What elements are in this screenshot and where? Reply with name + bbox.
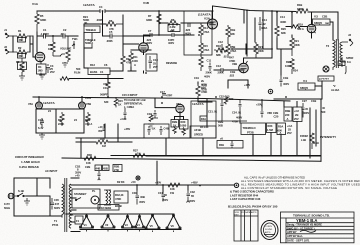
svg-text:C4B: C4B: [164, 127, 169, 131]
resistor R34: [277, 123, 286, 135]
wire rail right + junction: [180, 185, 234, 190]
capacitor C14: [259, 17, 268, 31]
tube V2B envelope: [239, 63, 249, 73]
jack J3: [342, 33, 353, 46]
pot VOLUME: [60, 36, 71, 62]
svg-text:450V: 450V: [162, 198, 168, 202]
resistor R28: [85, 112, 92, 126]
svg-text:C35: C35: [54, 198, 59, 202]
heater drops: [87, 230, 174, 233]
resistor R3: [16, 58, 27, 76]
capacitor C17: [160, 90, 173, 98]
resistor R9: [121, 56, 131, 65]
heater triangle V3: [121, 215, 133, 229]
svg-text:APPD: APPD: [265, 231, 271, 234]
svg-text:630: 630: [104, 100, 109, 104]
capacitor C20: [120, 108, 127, 121]
svg-text:330K: 330K: [146, 18, 152, 22]
resistor R30: [224, 96, 234, 104]
capacitor C21: [208, 100, 224, 122]
wire top right rail 2: [213, 6, 339, 40]
resistor R18b: [226, 25, 236, 42]
svg-text:R21: R21: [294, 39, 299, 43]
tube V5A stage: [176, 102, 204, 106]
capacitor C19b: [85, 165, 102, 180]
resistor R15: [199, 41, 210, 55]
labels right col: [311, 99, 326, 114]
tube V1A internals: [37, 55, 43, 62]
svg-text:SPKR: SPKR: [346, 56, 353, 60]
svg-text:TORNVILLE SOUND LTD.: TORNVILLE SOUND LTD.: [293, 214, 330, 218]
resistor R27c: [148, 115, 154, 128]
svg-text:6.4V: 6.4V: [38, 126, 44, 130]
svg-text:V2: V2: [105, 223, 109, 227]
resistor R5B: [103, 165, 123, 173]
svg-text:R50: R50: [48, 43, 53, 47]
svg-text:450: 450: [98, 129, 103, 133]
svg-text:68K: 68K: [19, 54, 24, 58]
capacitor C2: [56, 28, 79, 39]
svg-text:400V: 400V: [185, 32, 191, 36]
wire reverb stage box: [36, 97, 84, 133]
svg-text:C32: C32: [190, 190, 195, 194]
svg-text:LAST CAPACITOR C33: LAST CAPACITOR C33: [230, 197, 261, 201]
svg-text:C1B: C1B: [283, 76, 288, 80]
svg-text:400V: 400V: [146, 41, 152, 45]
svg-text:REV: REV: [235, 215, 240, 217]
svg-text:400A: 400A: [261, 26, 267, 30]
wire osc top: [198, 80, 248, 102]
wire top rail ch1: [37, 11, 213, 22]
svg-text:.022: .022: [229, 74, 235, 78]
svg-text:220K: 220K: [58, 122, 64, 126]
svg-text:400V: 400V: [201, 83, 207, 87]
svg-text:+4BV: +4BV: [191, 181, 198, 185]
wire C12 run: [232, 44, 272, 54]
resistor R16: [214, 44, 228, 57]
resistor R7: [146, 14, 161, 24]
svg-text:TREMOLO: TREMOLO: [243, 126, 256, 130]
svg-text:BASS: BASS: [90, 70, 98, 74]
node dots rail: [38, 10, 293, 186]
svg-text:600: 600: [321, 110, 326, 114]
heater triangle V4: [134, 215, 144, 229]
svg-text:27B: 27B: [114, 168, 119, 172]
title row app1: [287, 230, 316, 234]
svg-text:450V: 450V: [189, 199, 195, 203]
text circuit breaker note: [15, 155, 44, 169]
top right rail R18: [296, 3, 308, 13]
svg-text:C1: C1: [100, 70, 104, 74]
revision table: [234, 210, 258, 241]
svg-text:C2B: C2B: [322, 15, 327, 19]
svg-text:YBM-1 B.A: YBM-1 B.A: [296, 218, 317, 223]
svg-text:AC INPUT: AC INPUT: [45, 169, 58, 173]
svg-text:DATE - SEPT 1971: DATE - SEPT 1971: [287, 239, 310, 243]
svg-text:YORKV: YORKV: [265, 226, 273, 228]
svg-text:C1B: C1B: [311, 99, 316, 103]
svg-text:L1B: L1B: [301, 138, 306, 142]
svg-text:S.1B: S.1B: [18, 189, 24, 193]
svg-text:470A: 470A: [203, 48, 209, 52]
resistor R24 label: [83, 15, 89, 25]
svg-text:.0006: .0006: [96, 18, 103, 22]
svg-text:R16: R16: [216, 44, 221, 48]
ground reverb box: [39, 133, 45, 139]
svg-text:47PF: 47PF: [166, 94, 173, 98]
svg-text:C5: C5: [109, 30, 113, 34]
jack J2: [4, 45, 13, 54]
resistor R-220K: [58, 112, 64, 126]
svg-text:R33: R33: [268, 124, 273, 128]
pilot lamp PL: [91, 189, 99, 204]
title row design: [287, 223, 322, 227]
resistor R33 box: [267, 123, 277, 133]
pot TREMOLO: [232, 120, 266, 135]
pot TREBLE box: [84, 26, 100, 48]
svg-text:R8: R8: [171, 18, 175, 22]
tube V4A internals: [37, 104, 41, 109]
svg-text:C7: C7: [148, 29, 152, 33]
resistor R1: [13, 29, 33, 42]
capacitor C35: [51, 198, 61, 210]
resistors R42 R43: [114, 191, 128, 208]
svg-text:+50: +50: [131, 180, 136, 184]
svg-text:12AX7A: 12AX7A: [192, 102, 204, 106]
svg-text:TREBLE: TREBLE: [86, 28, 97, 32]
capacitor C13: [214, 64, 244, 72]
svg-text:C19: C19: [194, 76, 199, 80]
svg-text:10K: 10K: [86, 161, 91, 165]
svg-text:R2: R2: [18, 46, 22, 50]
resistor R19: [286, 12, 312, 38]
svg-text:V5: V5: [150, 224, 154, 228]
wire V1B grid: [123, 43, 139, 45]
svg-text:R7: R7: [148, 14, 152, 18]
label A13B: [331, 84, 339, 92]
svg-text:A: A: [134, 63, 136, 67]
svg-text:.1 450V: .1 450V: [40, 32, 49, 36]
heater box label: [98, 205, 119, 211]
svg-text:68K: 68K: [19, 38, 24, 42]
svg-text:C4: C4: [99, 5, 103, 9]
plug 117V: [4, 193, 18, 210]
svg-text:TO CASE OF L1B: TO CASE OF L1B: [124, 98, 146, 102]
svg-text:470A: 470A: [230, 49, 236, 53]
svg-text:DIFFERENTIAL: DIFFERENTIAL: [124, 102, 143, 106]
svg-text:V2B: V2B: [232, 62, 237, 66]
svg-text:C2B: C2B: [85, 165, 90, 169]
svg-text:C14: C14: [280, 15, 285, 19]
svg-text:R42,43: R42,43: [115, 193, 124, 197]
svg-text:C11: C11: [207, 59, 212, 63]
resistor R20b: [275, 12, 287, 49]
svg-text:AL13A: AL13A: [331, 88, 339, 92]
heater triangle V1: [79, 214, 93, 228]
tube V1B internals: [141, 46, 147, 53]
capacitor C8: [168, 29, 175, 45]
svg-text:R36: R36: [87, 153, 92, 157]
capacitor C7: [146, 29, 152, 45]
svg-text:C10: C10: [153, 58, 158, 62]
svg-text:R19: R19: [298, 23, 303, 27]
resistor R6: [106, 19, 123, 31]
resistor R20 470K: [196, 84, 208, 98]
transformer T1: [52, 178, 80, 232]
svg-text:B1,B2,D3,D4,D5, PH304 OR BY 10: B1,B2,D3,D4,D5, PH304 OR BY 100: [228, 205, 278, 209]
svg-text:C2B: C2B: [273, 111, 278, 115]
capacitor C19: [194, 76, 207, 87]
wire jack bus: [13, 36, 33, 52]
svg-text:AF1B: AF1B: [194, 128, 201, 132]
svg-text:CIRCUIT BREAKER: CIRCUIT BREAKER: [15, 155, 44, 159]
capacitor C30: [132, 190, 145, 205]
svg-text:C22 G15: C22 G15: [219, 95, 230, 99]
switch TW1: [72, 37, 78, 49]
title block frame: [281, 212, 355, 243]
svg-text:100K: 100K: [285, 64, 291, 68]
tube V3 envelope: [307, 24, 316, 33]
wire V3 plate to OT: [312, 12, 334, 40]
svg-text:60Hz: 60Hz: [4, 206, 11, 210]
svg-text:1 AND HOLD: 1 AND HOLD: [21, 160, 41, 164]
svg-text:82K: 82K: [281, 31, 286, 35]
svg-text:R5A: R5A: [278, 125, 283, 129]
capacitor C4: [96, 5, 105, 22]
capacitor C18: [75, 165, 81, 178]
capacitor osc: [261, 107, 273, 118]
svg-text:1000: 1000: [132, 59, 138, 63]
svg-text:2B: 2B: [295, 113, 298, 117]
svg-text:470K: 470K: [232, 120, 238, 124]
tremolo osc caps row: [207, 95, 262, 127]
svg-text:V4: V4: [137, 223, 141, 227]
resistor R21: [290, 35, 300, 56]
svg-text:SOUND: SOUND: [265, 229, 273, 231]
svg-text:12AX7A: 12AX7A: [83, 3, 95, 7]
svg-text:.047: .047: [54, 202, 60, 206]
tube V5A internals: [177, 107, 182, 113]
resistor R17: [199, 55, 203, 71]
wire left col power: [76, 124, 190, 185]
title row dwg: [287, 226, 315, 230]
svg-text:1W: 1W: [170, 191, 174, 195]
capacitor C18c: [147, 110, 158, 118]
svg-text:820: 820: [229, 97, 234, 101]
pot R4A: [200, 116, 208, 129]
svg-text:+C20: +C20: [120, 117, 127, 121]
svg-text:A: A: [287, 117, 289, 121]
svg-text:C21 .01: C21 .01: [208, 110, 218, 114]
capacitor C25 box: [293, 107, 302, 122]
tube V4B internals: [80, 104, 84, 109]
svg-text:+36V: +36V: [85, 96, 91, 100]
svg-text:+40: +40: [98, 125, 103, 129]
box osc enclosure: [191, 101, 216, 138]
wire R8 run: [159, 22, 213, 24]
svg-text:C31: C31: [158, 191, 163, 195]
svg-text:PL: PL: [92, 189, 96, 193]
svg-text:APP BY Ba L: APP BY Ba L: [287, 234, 303, 238]
pot BASS box: [74, 63, 110, 75]
wire long mid rail: [33, 97, 290, 101]
svg-text:R4: R4: [38, 65, 42, 69]
box V2A stage: [184, 11, 212, 55]
svg-text:R3B: R3B: [285, 109, 290, 113]
node circled-plus mid: [268, 89, 272, 93]
ground input stage: [19, 75, 45, 80]
svg-text:C1B: C1B: [230, 70, 235, 74]
capacitor C11b: [204, 59, 224, 79]
svg-text:200K: 200K: [206, 71, 212, 75]
tube V2A envelope: [208, 19, 218, 29]
svg-text:R47: R47: [229, 56, 234, 60]
svg-text:DATE: DATE: [245, 211, 251, 214]
resistor R27 row: [74, 118, 77, 122]
resistor R44: [168, 183, 180, 195]
svg-text:+40V: +40V: [244, 83, 250, 87]
svg-text:600V: 600V: [54, 206, 60, 210]
svg-text:1K: 1K: [152, 127, 155, 131]
capacitor C5: [106, 30, 123, 43]
resistor R28b: [218, 120, 223, 128]
wire R35 run: [76, 124, 132, 142]
svg-text:PT34: PT34: [52, 223, 59, 227]
svg-text:50B: 50B: [218, 124, 223, 128]
tube V1B envelope: [139, 43, 149, 53]
wire V2A plate top: [212, 6, 214, 19]
resistor R14: [199, 23, 210, 41]
resistor R28c: [202, 84, 207, 92]
resistor R35: [96, 137, 108, 148]
lamp circle-x: [323, 66, 329, 72]
svg-text:82K: 82K: [230, 32, 235, 36]
svg-text:R1: R1: [18, 29, 22, 33]
wire bass: [84, 46, 123, 83]
tube V2B internals: [240, 61, 247, 73]
svg-text:A: A: [280, 131, 282, 135]
svg-text:R13: R13: [90, 63, 95, 67]
tube V3 internals: [309, 27, 316, 33]
svg-text:R1B: R1B: [230, 28, 235, 32]
svg-text:25V: 25V: [287, 131, 292, 135]
svg-text:C15 2 INPUT: C15 2 INPUT: [122, 93, 138, 97]
capacitor C10 box: [146, 54, 158, 71]
svg-text:470K: 470K: [115, 197, 121, 201]
svg-text:400V: 400V: [236, 116, 242, 120]
svg-text:R14: R14: [203, 26, 208, 30]
output transformer T2: [326, 39, 342, 70]
resistor R49: [310, 133, 319, 149]
svg-text:R35: R35: [100, 137, 105, 141]
tube label 12AX7A V2A: [198, 13, 211, 21]
svg-text:100K: 100K: [258, 49, 264, 53]
box standby: [72, 189, 100, 208]
svg-text:DWG BY - ( E.TARGE ): DWG BY - ( E.TARGE ): [287, 226, 315, 230]
svg-text:V5A: V5A: [28, 102, 33, 106]
svg-text:330K: 330K: [40, 18, 46, 22]
svg-text:C24 .01: C24 .01: [232, 111, 242, 115]
svg-text:100K: 100K: [294, 43, 300, 47]
resistor R50 grid: [48, 36, 55, 56]
wire V1A plate: [36, 32, 38, 52]
svg-text:45B: 45B: [103, 166, 108, 170]
svg-text:R23: R23: [286, 60, 291, 64]
wire osc verticals: [262, 100, 297, 108]
svg-text:P.LIN: P.LIN: [74, 71, 80, 75]
small box right: [338, 61, 346, 74]
svg-text:C1: C1: [43, 28, 47, 32]
svg-text:C2: C2: [63, 28, 67, 32]
svg-text:R17: R17: [58, 118, 63, 122]
svg-text:25V: 25V: [294, 117, 299, 121]
svg-text:47B A: 47B A: [85, 122, 92, 126]
svg-text:R11: R11: [133, 55, 138, 59]
svg-text:1K: 1K: [173, 123, 176, 127]
svg-text:C14: C14: [262, 18, 267, 22]
svg-text:C30: C30: [132, 191, 137, 195]
svg-text:500: 500: [76, 67, 81, 71]
svg-text:R49: R49: [313, 141, 319, 145]
svg-text:PT2B: PT2B: [247, 131, 254, 135]
svg-text:.02: .02: [223, 55, 227, 59]
svg-text:.02: .02: [262, 22, 266, 26]
svg-text:R39: R39: [219, 143, 224, 147]
wire pot drops: [166, 121, 297, 156]
svg-text:R6: R6: [109, 19, 113, 23]
capacitor C1Bb: [229, 70, 235, 78]
svg-text:R1B: R1B: [297, 3, 302, 7]
resistor R15b: [114, 97, 123, 107]
svg-text:D2 D3: D2 D3: [117, 180, 125, 184]
svg-text:R4A: R4A: [201, 117, 206, 121]
svg-text:400V: 400V: [168, 41, 174, 45]
label speaker: [342, 56, 353, 67]
node circled B+: [234, 183, 238, 187]
svg-text:C13: C13: [216, 64, 221, 68]
wire V1B cathode: [128, 50, 151, 73]
svg-text:400K: 400K: [280, 20, 286, 24]
svg-text:R20: R20: [281, 27, 286, 31]
wire primary box: [14, 178, 62, 216]
svg-text:V6: V6: [171, 224, 175, 228]
svg-text:+36V: +36V: [124, 127, 130, 131]
svg-text:44B: 44B: [96, 166, 101, 170]
wire feedback: [60, 77, 123, 81]
svg-text:+CA: +CA: [287, 124, 292, 128]
svg-text:+40: +40: [75, 174, 80, 178]
wire rail to R44: [137, 185, 163, 192]
svg-text:V4: V4: [303, 79, 307, 83]
capacitor C31: [158, 191, 168, 202]
capacitor C1: [37, 28, 56, 39]
svg-text:APPD: APPD: [251, 211, 257, 214]
resistor R4 + capacitor C3 cathode: [37, 61, 55, 76]
wire V5A: [155, 98, 184, 120]
svg-text:INTENSITY: INTENSITY: [320, 135, 337, 139]
svg-text:117V: 117V: [4, 202, 10, 206]
resistor R23: [285, 58, 298, 74]
svg-text:47B: 47B: [126, 61, 131, 65]
capacitor C16 cathode: [38, 118, 44, 130]
resistor R2: [13, 46, 30, 58]
resistor R10 bass out: [103, 82, 110, 97]
pot SPEED: [190, 126, 216, 138]
svg-text:500KA: 500KA: [85, 41, 93, 45]
svg-text:TW1: TW1: [72, 37, 78, 41]
box R30 1000: [180, 120, 189, 136]
svg-text:1.5M: 1.5M: [267, 128, 274, 132]
